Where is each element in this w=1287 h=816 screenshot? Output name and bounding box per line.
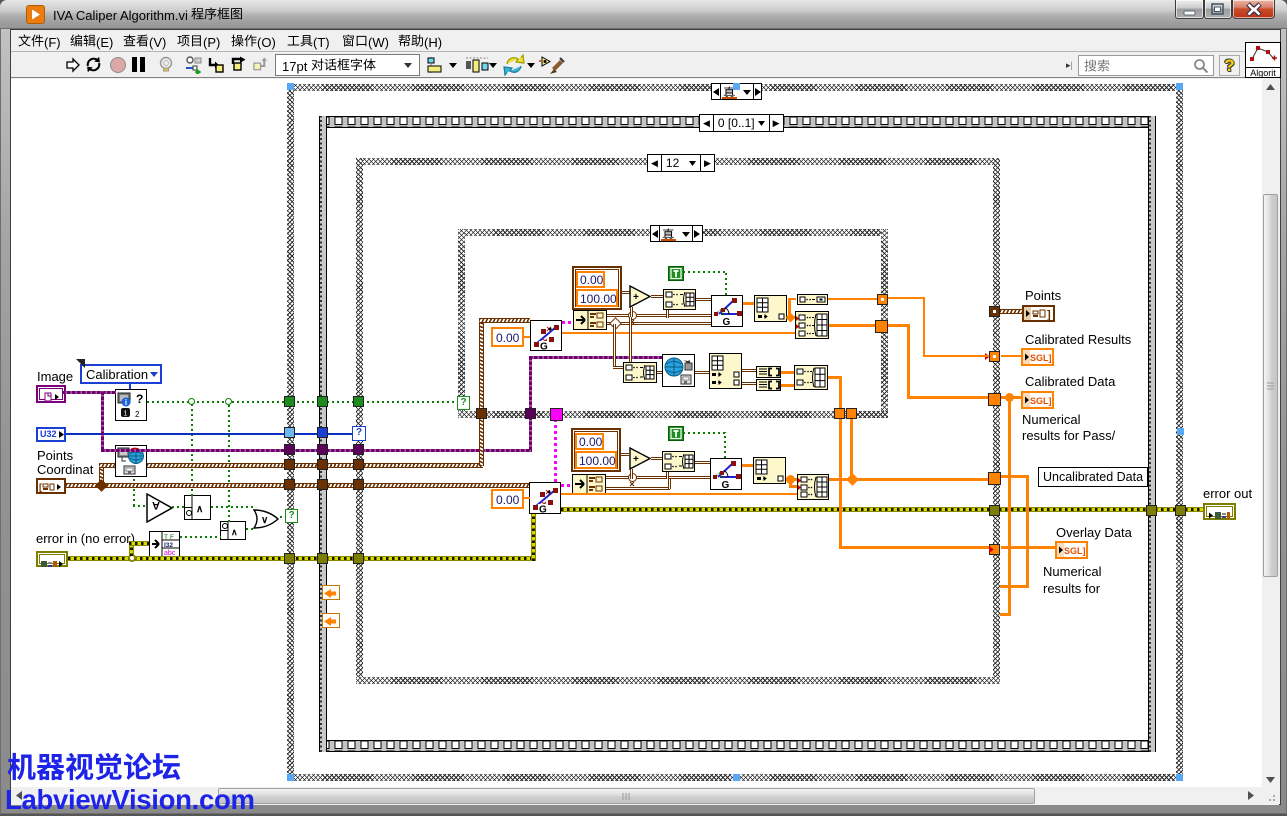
- OR gate: [252, 509, 280, 529]
- stacked sequence border bottom: [319, 740, 1156, 752]
- wire brown row2 B: [606, 487, 670, 490]
- outer case border left: [287, 84, 294, 781]
- index array small node: [797, 294, 828, 305]
- tunnel brown A outer: [284, 459, 295, 470]
- toolbar: [11, 53, 1280, 78]
- inner case border bottom: [458, 411, 888, 418]
- selection handle bottom-right: [1176, 774, 1183, 781]
- close button: [1232, 0, 1275, 19]
- index array node 2: [623, 362, 657, 383]
- index array node 2a: [662, 451, 695, 472]
- add node 2: [629, 447, 652, 470]
- Points array indicator terminal: [1022, 305, 1055, 322]
- wire purple image out: [62, 391, 116, 394]
- tunnel purple inner-bottom: [525, 408, 536, 419]
- wire orange subset2 drop: [850, 419, 853, 477]
- selection handle top-left: [287, 83, 294, 90]
- svg-text:SGL]: SGL]: [1064, 546, 1086, 556]
- wire brown world to reshape2: [695, 371, 709, 374]
- stacked sequence border left: [319, 116, 327, 752]
- wire blue enum to node: [129, 384, 131, 390]
- window title: [53, 7, 243, 23]
- tunnel orange case12-right calibrated data: [988, 393, 1001, 406]
- case structure 12 border top: [356, 158, 1000, 165]
- search expander: [1066, 60, 1076, 70]
- wire magenta tunnel drop row2: [554, 419, 557, 482]
- tunnel brown A case12: [353, 459, 364, 470]
- selection handle bottom-mid: [733, 774, 740, 781]
- array reshape node 2b: [753, 457, 786, 484]
- wire brown into idx2 second: [629, 373, 639, 376]
- boolean True constant 1: [668, 266, 684, 281]
- tunnel orange inner-right small: [877, 294, 888, 305]
- tunnel orange case12-right uncal: [988, 472, 1001, 485]
- selection handle mid-left: [287, 428, 294, 435]
- wire orange calibdata stub: [1001, 396, 1021, 399]
- tunnel orange inner-right big: [875, 320, 888, 333]
- label Numerical results bottom: [1043, 563, 1163, 597]
- wire brown row2 B rise: [668, 479, 671, 489]
- wire brown row1 A: [607, 314, 711, 317]
- label Uncalibrated Data boxed: [1038, 467, 1148, 487]
- tunnel error case12-right: [989, 505, 1000, 516]
- wire brown points stub: [1000, 309, 1022, 314]
- orange junction diamond row1: [786, 313, 796, 323]
- wire orange build1 out: [829, 324, 876, 327]
- orange junction dot row2: [786, 475, 795, 484]
- wire brown idx1 bottom drop: [666, 310, 669, 318]
- stacked sequence border top: [319, 116, 1156, 128]
- label error out: [1203, 486, 1252, 501]
- wire brown B points long: [66, 483, 530, 488]
- outer case selector terminal: [285, 509, 298, 523]
- wire green TF to AND2: [180, 536, 221, 538]
- svg-text:∧: ∧: [196, 504, 203, 515]
- minimize button: [1175, 0, 1204, 19]
- wire brown B branch up: [99, 465, 104, 485]
- watermark line 2: [5, 784, 255, 816]
- wire orange uncal right: [1001, 475, 1029, 478]
- array reshape node 1: [754, 295, 787, 322]
- enum label corner marker: [76, 359, 85, 368]
- tunnel green case12: [353, 396, 364, 407]
- Points coordinates array control terminal: [36, 478, 66, 494]
- boolean True constant 2: [668, 426, 684, 441]
- label Points: [37, 448, 73, 463]
- svg-text:SGL]: SGL]: [1030, 353, 1052, 363]
- wire orange calibdata seg2: [907, 396, 988, 399]
- outer case border bottom: [287, 774, 1183, 781]
- run continuously button: [85, 56, 102, 73]
- wire magenta caliper1 to unbundle1: [562, 321, 573, 324]
- inner case (True) border top: [458, 229, 888, 236]
- distribute objects dropdown: [464, 55, 497, 75]
- vertical scrollbar: [1262, 79, 1279, 789]
- wire orange calibres to tunnel: [888, 324, 910, 327]
- inner case selector label: [650, 225, 703, 242]
- IMAQ image control terminal: [36, 385, 66, 403]
- wire error main left: [68, 556, 535, 561]
- orange junction calibdata: [1005, 393, 1014, 402]
- svg-text:]: ]: [1047, 309, 1051, 320]
- tunnel magenta inner-bottom: [550, 408, 563, 421]
- wire orange calibdata down: [1008, 397, 1011, 616]
- And Array Elements triangle: [146, 493, 174, 523]
- unbundle position node 1: [573, 310, 607, 330]
- numeric 0.00 in cluster1: [576, 271, 605, 288]
- svg-text:I32: I32: [164, 542, 173, 549]
- wire brown cluster2 to add2: [621, 453, 629, 456]
- title bar: [0, 0, 1287, 29]
- svg-text:G: G: [539, 505, 547, 514]
- label Overlay Data: [1056, 525, 1132, 540]
- wire orange thin caliper1b long: [562, 332, 795, 334]
- svg-text:T: T: [164, 534, 168, 541]
- wire green T2: [683, 432, 726, 434]
- wire blue U32: [66, 433, 354, 435]
- wire brown add1 down: [630, 307, 633, 317]
- IMAQ pixel-to-real-world node: [662, 354, 695, 387]
- label Coordinat (clipped): [37, 462, 93, 477]
- highlight execution bulb: [158, 56, 174, 74]
- tunnel error outer: [284, 553, 295, 564]
- retain wire values: [185, 56, 202, 74]
- svg-text:∧: ∧: [231, 527, 238, 537]
- wire orange build3 down to tunnel: [839, 376, 842, 411]
- LabVIEW app icon: [26, 5, 45, 24]
- outer case structure (True case) border top: [287, 84, 1183, 91]
- svg-text:∨: ∨: [261, 515, 268, 526]
- numeric 100.00 in cluster2: [575, 451, 617, 469]
- wire orange build2c out to tunnel: [829, 478, 990, 481]
- error in cluster terminal: [36, 551, 68, 567]
- selection handle top-right: [1176, 83, 1183, 90]
- wire green T1: [683, 271, 727, 273]
- index array node 1: [663, 289, 696, 310]
- sequence frame label 0 [0..1]: [699, 114, 784, 132]
- svg-text:[: [: [39, 482, 42, 492]
- wire green globe to AAE: [133, 505, 147, 507]
- tunnel brown B outer: [284, 479, 295, 490]
- tunnel orange inner-bottom subset: [846, 408, 857, 419]
- caliper line-fit VI node row1-left: [530, 320, 562, 351]
- wire green OR out: [280, 516, 286, 518]
- wire green AND1 out: [211, 506, 253, 508]
- run button: [65, 57, 81, 73]
- wire brown row1 B: [607, 322, 711, 325]
- wire purple long: [101, 449, 532, 452]
- wire brown idx2a bottom drop: [666, 472, 669, 479]
- tunnel brown inner-bottom: [476, 408, 487, 419]
- wire green vertical to AND1: [191, 404, 193, 496]
- svg-text:A: A: [152, 499, 160, 511]
- Overlay Data SGL terminal: [1055, 541, 1088, 559]
- tunnel green outer: [284, 396, 295, 407]
- tunnel blue sequence: [317, 427, 328, 438]
- wire error branch horizontal: [129, 541, 149, 546]
- label Numerical results clipped top: [1022, 412, 1152, 441]
- wire brown A to caliper1: [479, 318, 530, 323]
- Calibration enum constant: [80, 364, 162, 384]
- help button: [1219, 55, 1240, 76]
- search box: [1078, 55, 1214, 76]
- Calibrated Results SGL terminal: [1021, 348, 1054, 366]
- wire error out of caliper2 to right: [561, 507, 1203, 512]
- U32 numeric constant: [36, 427, 66, 442]
- wire orange build3 out: [828, 376, 842, 379]
- wire brown add2 down: [630, 469, 633, 479]
- tunnel purple sequence: [317, 444, 328, 455]
- maximize/restore button: [1204, 0, 1232, 19]
- wire green vertical to AND2: [228, 404, 230, 522]
- wire brown row2 A: [606, 476, 710, 479]
- tunnel purple outer: [284, 444, 295, 455]
- horizontal scrollbar: [11, 787, 1262, 805]
- sequence local tunnel 2: [322, 613, 340, 628]
- case 12 border left: [356, 158, 363, 684]
- wire add1 out: [651, 295, 663, 298]
- cluster constant 2 frame: [571, 428, 621, 472]
- reorder dropdown: [538, 54, 568, 76]
- add node 1: [629, 285, 652, 308]
- wire error branch up to unbundle: [129, 542, 134, 556]
- numeric 0.00 in cluster2: [575, 433, 604, 450]
- wire orange overlay drop: [839, 419, 842, 549]
- tunnel error sequence: [317, 553, 328, 564]
- label Calibrated Results: [1025, 332, 1131, 347]
- svg-text:G: G: [723, 317, 731, 326]
- selection handle bottom-left: [287, 774, 294, 781]
- wire brown vertical to idx2 second: [629, 317, 632, 375]
- svg-text:?: ?: [136, 392, 143, 406]
- wire purple to world node: [529, 356, 663, 359]
- brown junction diamond row1: [609, 317, 622, 330]
- svg-text:1: 1: [124, 411, 128, 418]
- Calibrated Data SGL terminal: [1021, 391, 1054, 409]
- tunnel error sequence-right: [1146, 505, 1157, 516]
- align objects dropdown: [427, 55, 458, 75]
- wire orange caliper2 to reshape2b: [742, 464, 753, 467]
- stacked sequence border right: [1148, 116, 1156, 752]
- wire magenta caliper2L to unbundle2: [561, 484, 572, 487]
- IMAQ convert ROI node: [115, 445, 147, 477]
- svg-text:F: F: [170, 534, 174, 541]
- svg-text:SGL]: SGL]: [1030, 396, 1052, 406]
- tunnel error case12: [353, 553, 364, 564]
- wire orange caliper1 to array node: [743, 302, 754, 305]
- tunnel purple case12: [353, 444, 364, 455]
- wire orange return1: [1000, 613, 1011, 616]
- array reshape node 2: [709, 353, 742, 389]
- tunnel green sequence: [317, 396, 328, 407]
- wire orange calibres inner seg: [888, 297, 925, 299]
- wire brown idx2 to world: [657, 371, 664, 374]
- wire green T2 down: [724, 432, 726, 458]
- wire brown A from convert node: [147, 463, 483, 468]
- case 12 border bottom: [356, 677, 1000, 684]
- wire add2 out: [651, 457, 662, 460]
- wire orange return2: [1000, 585, 1029, 588]
- wire purple rise into inner case: [529, 358, 532, 450]
- tunnel error outer-right: [1175, 505, 1186, 516]
- error loop junction: [128, 554, 136, 562]
- array subset node lower: [756, 379, 781, 391]
- menu bar: [11, 30, 1280, 52]
- wire orange 0.00 to caliper1L: [524, 336, 530, 338]
- wire orange uncal down: [1026, 475, 1029, 588]
- wire brown B branch to node: [99, 463, 115, 468]
- wire green boolean main: [147, 401, 458, 403]
- wire orange subset upper out: [781, 371, 794, 374]
- wire idx1 out to caliper: [696, 298, 711, 301]
- scrollbar corner + resize grip: [1262, 787, 1279, 805]
- cluster constant 1 frame: [572, 266, 622, 310]
- outer case border right: [1176, 84, 1183, 781]
- build array node 2c: [797, 474, 829, 500]
- array subset node upper: [756, 366, 781, 378]
- label error in: [36, 531, 135, 546]
- wire orange reshape2b to junction: [786, 478, 797, 481]
- outer case selector label: [711, 83, 762, 100]
- wire brown reshape2 out A: [742, 369, 756, 372]
- wire green junction dot 1: [188, 398, 195, 405]
- svg-text:+: +: [633, 292, 639, 303]
- case 12 border right: [993, 158, 1000, 684]
- wire green T1 down: [725, 271, 727, 295]
- wire orange junction drop: [789, 478, 792, 488]
- caliper VI node 1 (angle): [711, 295, 743, 327]
- wire crossing marker row2: [628, 473, 637, 482]
- svg-text:G: G: [722, 480, 730, 489]
- case 12 selector label: [647, 154, 715, 172]
- wire brown down to idx2: [613, 324, 616, 368]
- wire orange to index small: [788, 298, 796, 300]
- wire purple vertical: [101, 391, 104, 450]
- compound AND node 2: [220, 521, 246, 540]
- unbundle position node 2: [572, 474, 606, 494]
- wire orange idxS out: [828, 298, 878, 300]
- label Image: [37, 369, 73, 384]
- wire orange calibres drop: [923, 297, 925, 355]
- wire error rise to caliper2: [531, 513, 536, 561]
- selection handle top-mid: [733, 83, 740, 90]
- watermark line 1: [7, 752, 181, 786]
- wire orange overlay stub: [1001, 546, 1055, 549]
- tunnel brown B sequence: [317, 479, 328, 490]
- wire idx2a out: [695, 461, 710, 464]
- wire brown into idx2: [613, 366, 623, 369]
- error out cluster terminal: [1203, 503, 1236, 520]
- wire crossing marker row1: [628, 311, 637, 320]
- sequence local tunnel 1: [322, 585, 340, 600]
- tunnel brown A sequence: [317, 459, 328, 470]
- selection handle mid-right: [1177, 428, 1184, 435]
- wire orange calibres stub: [1001, 355, 1021, 357]
- orange junction diamond uncal: [846, 473, 859, 486]
- wire orange grid1 to diamond: [787, 316, 795, 319]
- case12 selector terminal (blue): [352, 426, 366, 441]
- step into: [208, 56, 225, 73]
- wire orange overlay long: [839, 546, 990, 549]
- tunnel orange case12-right overlay: [989, 544, 1000, 555]
- step out (disabled): [253, 56, 269, 73]
- wire orange subset lower out: [781, 384, 794, 387]
- pause button: [132, 57, 137, 72]
- unbundle error cluster node: [149, 531, 180, 557]
- wire brown reshape2 out B: [742, 382, 756, 385]
- svg-text:+: +: [633, 454, 639, 465]
- font selector box: [275, 54, 420, 76]
- compound AND node 1: [184, 495, 211, 520]
- numeric 100.00 in cluster1: [576, 289, 618, 307]
- caliper VI node 2 (angle): [710, 458, 742, 490]
- wire orange junction to build2c row2: [789, 485, 797, 488]
- wire brown A rise at inner case: [479, 318, 484, 466]
- wire orange calibdata drop: [907, 324, 910, 399]
- svg-text:i: i: [125, 398, 127, 407]
- numeric constant 0.00 row2: [491, 489, 524, 509]
- wire green globe node down: [133, 477, 135, 506]
- wire brown cluster1 to add1: [622, 291, 630, 294]
- wire orange thin caliper2L long: [561, 493, 797, 495]
- wire green AAE out: [172, 506, 185, 508]
- svg-text:G: G: [540, 342, 548, 351]
- tunnel brown B case12: [353, 479, 364, 490]
- label Calibrated Data: [1025, 374, 1115, 389]
- caliper line-fit VI node row2-left: [529, 482, 561, 514]
- brown junction diamond: [95, 479, 108, 492]
- svg-text:2: 2: [135, 410, 140, 419]
- wire green junction dot 2: [225, 398, 232, 405]
- abort button (disabled): [110, 57, 126, 73]
- numeric constant 0.00 row2-left: [491, 327, 524, 347]
- tunnel blue outer (selected): [284, 427, 295, 438]
- inner case selector terminal: [457, 396, 470, 410]
- wire orange 0.00 row2: [524, 497, 530, 499]
- tunnel orange case12-right calibrated results: [989, 351, 1000, 362]
- inner case border right: [881, 229, 888, 418]
- build array node 1: [795, 311, 829, 339]
- VI icon pane (Algorit): [1245, 42, 1281, 78]
- build array node 3: [794, 365, 828, 390]
- wire orange diamond up: [788, 298, 791, 316]
- wire green AND2 out: [246, 528, 254, 530]
- step over: [231, 56, 248, 73]
- tunnel orange inner-bottom overlay: [834, 408, 845, 419]
- label Points out: [1025, 288, 1061, 303]
- IMAQ check calibration node: [115, 389, 147, 421]
- resize objects dropdown: [503, 54, 535, 76]
- inner case border left: [458, 229, 465, 418]
- wire orange calibres seg2: [923, 355, 989, 357]
- tunnel brown case12-right Points: [989, 306, 1000, 317]
